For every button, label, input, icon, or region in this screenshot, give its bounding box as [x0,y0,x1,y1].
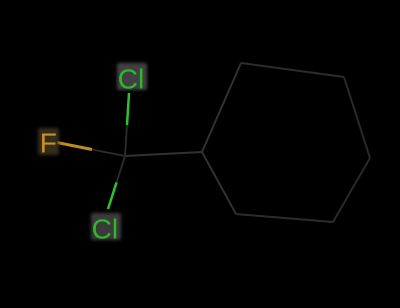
ring cyclohexane edge V2-V3 [241,63,344,77]
svg-text:Cl: Cl [118,63,144,94]
bond C-Cl top, chlorine half [127,93,129,125]
bond C-F, fluorine half [57,143,92,150]
ring cyclohexane edge V4-V5 [333,158,370,222]
bond C-Cl bottom, chlorine half [108,183,117,210]
bond C-Cl bottom, carbon half [117,156,126,183]
label halo Cl top [117,63,147,90]
svg-text:Cl: Cl [92,214,118,245]
bond C-F, carbon half [92,150,125,157]
ring cyclohexane edge V6-V1 [202,152,236,214]
svg-text:F: F [40,128,57,159]
label halo F [38,128,59,155]
label halo Cl bottom [91,213,121,240]
ring cyclohexane edge V1-V2 [202,63,241,152]
ring cyclohexane edge V5-V6 [236,214,333,222]
ring cyclohexane edge V3-V4 [344,77,370,158]
wire C-ring bond [125,152,202,156]
bond C-Cl top, carbon half [125,125,127,156]
